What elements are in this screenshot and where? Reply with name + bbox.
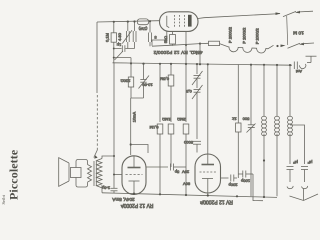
- svg-text:500: 500: [242, 117, 249, 122]
- tube V3 RV12P2000 detector (bottom middle): [195, 154, 221, 195]
- transformer primary winding (zigzag): [88, 165, 92, 183]
- trimmer 10-60 branch x143.5: [139, 64, 153, 98]
- cathode of V2: [129, 180, 140, 182]
- svg-text:29V: 29V: [182, 170, 189, 175]
- wire branch x237: [232, 65, 241, 179]
- antenna T symbol: [306, 56, 317, 62]
- trimmer capacitor 4-30pF: [117, 22, 132, 49]
- resistor 2M row x186: [177, 117, 189, 195]
- resistor 45k series: [200, 41, 228, 47]
- wire dashed mechanical link to output transformer: [96, 95, 98, 150]
- wire V2 anode side lead: [146, 166, 168, 168]
- wire left vertical branch from W1: [96, 22, 98, 93]
- svg-text:Ant: Ant: [295, 69, 302, 74]
- capacitor 5000 to V3 grid: [183, 140, 201, 153]
- switch top contact (arrow, blade, arrow): [276, 11, 314, 17]
- wire W1 top rail left segment: [97, 21, 160, 22]
- svg-text:RV 12 P2000/¹: RV 12 P2000/¹: [120, 202, 153, 208]
- svg-text:10-60: 10-60: [142, 83, 153, 88]
- svg-text:5kΩ: 5kΩ: [163, 36, 168, 43]
- coil L2: [275, 65, 280, 196]
- svg-text:P 2000/2: P 2000/2: [255, 27, 260, 44]
- wire secondary top: [102, 156, 114, 159]
- transformer core: [93, 161, 95, 186]
- transformer secondary winding (zigzag): [97, 159, 103, 188]
- resistor 0,1 M (grid leak): [111, 33, 116, 42]
- svg-text:μF: μF: [307, 160, 312, 165]
- wire link y=57.6 with wiper arrow: [114, 57, 131, 59]
- wire V3 anode feed from rail B: [207, 64, 209, 154]
- resistor (1W) series in W1: [137, 19, 148, 32]
- switch link bar: [287, 16, 288, 45]
- loudspeaker driver: [71, 168, 82, 178]
- wire speaker loop: [76, 160, 88, 168]
- svg-text:1μ: 1μ: [116, 43, 121, 48]
- trimmer lower detector: [185, 85, 202, 139]
- svg-text:204V, 5mA: 204V, 5mA: [111, 197, 134, 202]
- wire rail end hook: [253, 196, 263, 200]
- resistor 120 ohm branch x131: [121, 63, 134, 87]
- grid of V3: [200, 171, 217, 173]
- trimmer 50pF detector: [192, 64, 203, 88]
- switch bottom contact: [276, 43, 314, 49]
- svg-text:(1W): (1W): [138, 27, 147, 32]
- capacitor 200p: [228, 175, 238, 188]
- wire V3 anode lead right: [221, 177, 229, 179]
- node dot on W1 at coupling cap: [149, 20, 151, 22]
- svg-text:5000: 5000: [183, 140, 193, 145]
- node dots on grid line: [113, 48, 115, 50]
- wire grid line x114 down to tone cap: [113, 63, 115, 188]
- jack hook left: [287, 186, 293, 189]
- wire rail B (screen/HT bus): [113, 63, 293, 65]
- node dot: [199, 43, 201, 45]
- loudspeaker cone: [59, 158, 81, 187]
- svg-text:RV 12 P2000/²: RV 12 P2000/²: [200, 199, 233, 205]
- wire node down to rail B: [199, 44, 201, 64]
- node dot: [130, 143, 132, 145]
- svg-text:10 M: 10 M: [293, 30, 304, 36]
- svg-text:4-30: 4-30: [117, 32, 122, 41]
- svg-text:0,1M: 0,1M: [150, 125, 159, 130]
- node dot on W1 at R 0,1M: [113, 21, 115, 23]
- wire branch x160: [159, 64, 161, 122]
- tube V2 RV12P2000 output (bottom left): [122, 156, 146, 195]
- node dot coil bus: [263, 159, 265, 161]
- svg-text:1MΩ: 1MΩ: [162, 117, 171, 122]
- wire V1 cathode lead down: [152, 31, 167, 46]
- svg-text:Piccolette: Piccolette: [6, 149, 20, 200]
- svg-text:86V: 86V: [183, 182, 190, 187]
- svg-text:120Ω: 120Ω: [121, 79, 131, 84]
- node dots on ground rail: [133, 193, 265, 199]
- capacitor 5n coupling: [149, 21, 157, 46]
- anode of V3: [207, 154, 209, 165]
- RF choke 3 windings: [228, 45, 274, 53]
- wire link y=48.5: [114, 48, 135, 50]
- cathode of V3: [202, 178, 213, 180]
- coil L1: [262, 65, 267, 196]
- grid of V2: [126, 174, 143, 176]
- wire V2 grid lead to transformer: [114, 174, 122, 176]
- wire branch x186: [185, 64, 187, 122]
- wire V1 screen lead down to rail B: [185, 31, 187, 64]
- svg-text:0,1M: 0,1M: [105, 33, 110, 42]
- anode of V1: [188, 15, 192, 27]
- svg-text:0,5M: 0,5M: [160, 77, 169, 82]
- svg-text:μF: μF: [293, 160, 298, 165]
- svg-text:P 2000/2: P 2000/2: [242, 27, 247, 44]
- svg-text:2-6μ: 2-6μ: [101, 186, 110, 191]
- grid of V1: [174, 15, 176, 27]
- svg-text:1k: 1k: [232, 117, 236, 122]
- trimmer 500 tuning: [242, 65, 256, 197]
- wire joining branches at y98: [131, 87, 144, 98]
- earth symbol: [290, 189, 319, 201]
- wire tap from L3: [290, 125, 305, 164]
- anode of V2: [133, 156, 135, 168]
- node dots on rail B: [130, 62, 291, 66]
- capacitor beside trimmer: [133, 20, 136, 48]
- wire secondary bottom to rail: [101, 185, 103, 193]
- capacitor 5p: [171, 164, 187, 175]
- arrow head onto transformer: [94, 150, 98, 158]
- wire cathode bus to node: [152, 44, 200, 47]
- jack hook right: [302, 186, 308, 189]
- capacitor 2-6uF: [101, 186, 117, 194]
- svg-text:5p: 5p: [174, 170, 179, 175]
- wire anode feed down to V2 with meter label: [130, 98, 132, 155]
- svg-text:100p: 100p: [240, 179, 250, 184]
- resistor 5k cathode: [163, 31, 175, 46]
- svg-text:10mA: 10mA: [132, 111, 137, 122]
- svg-text:200p: 200p: [228, 183, 238, 188]
- svg-text:2MΩ: 2MΩ: [177, 117, 186, 122]
- capacitor 100p: [238, 171, 253, 197]
- cathode of V1: [167, 16, 169, 28]
- wire from node to grid chain: [131, 145, 148, 154]
- node dot on W1 at trimmer: [127, 21, 129, 23]
- svg-text:45kΩ. RV 12 P2000/2: 45kΩ. RV 12 P2000/2: [153, 50, 202, 55]
- capacitor 1uF in link: [116, 43, 125, 52]
- svg-text:P 2000/2: P 2000/2: [228, 26, 233, 43]
- antenna coupling capacitor: [294, 62, 306, 75]
- svg-text:Seibt: Seibt: [1, 194, 6, 204]
- resistor 1M row x160: [150, 124, 163, 194]
- svg-text:0,5: 0,5: [185, 89, 191, 94]
- tube V1 RV12P2000 (top, horizontal): [160, 12, 199, 32]
- coil L3: [288, 65, 293, 164]
- resistor 0,5M branch x171: [160, 64, 174, 122]
- capacitor 1uF output jack right: [301, 160, 312, 182]
- wire bottom ground rail: [102, 193, 277, 198]
- capacitor 1uF output jack left: [287, 160, 298, 182]
- resistor 1M row x171: [162, 117, 174, 167]
- wire W1 top rail right segment to switch: [198, 14, 280, 19]
